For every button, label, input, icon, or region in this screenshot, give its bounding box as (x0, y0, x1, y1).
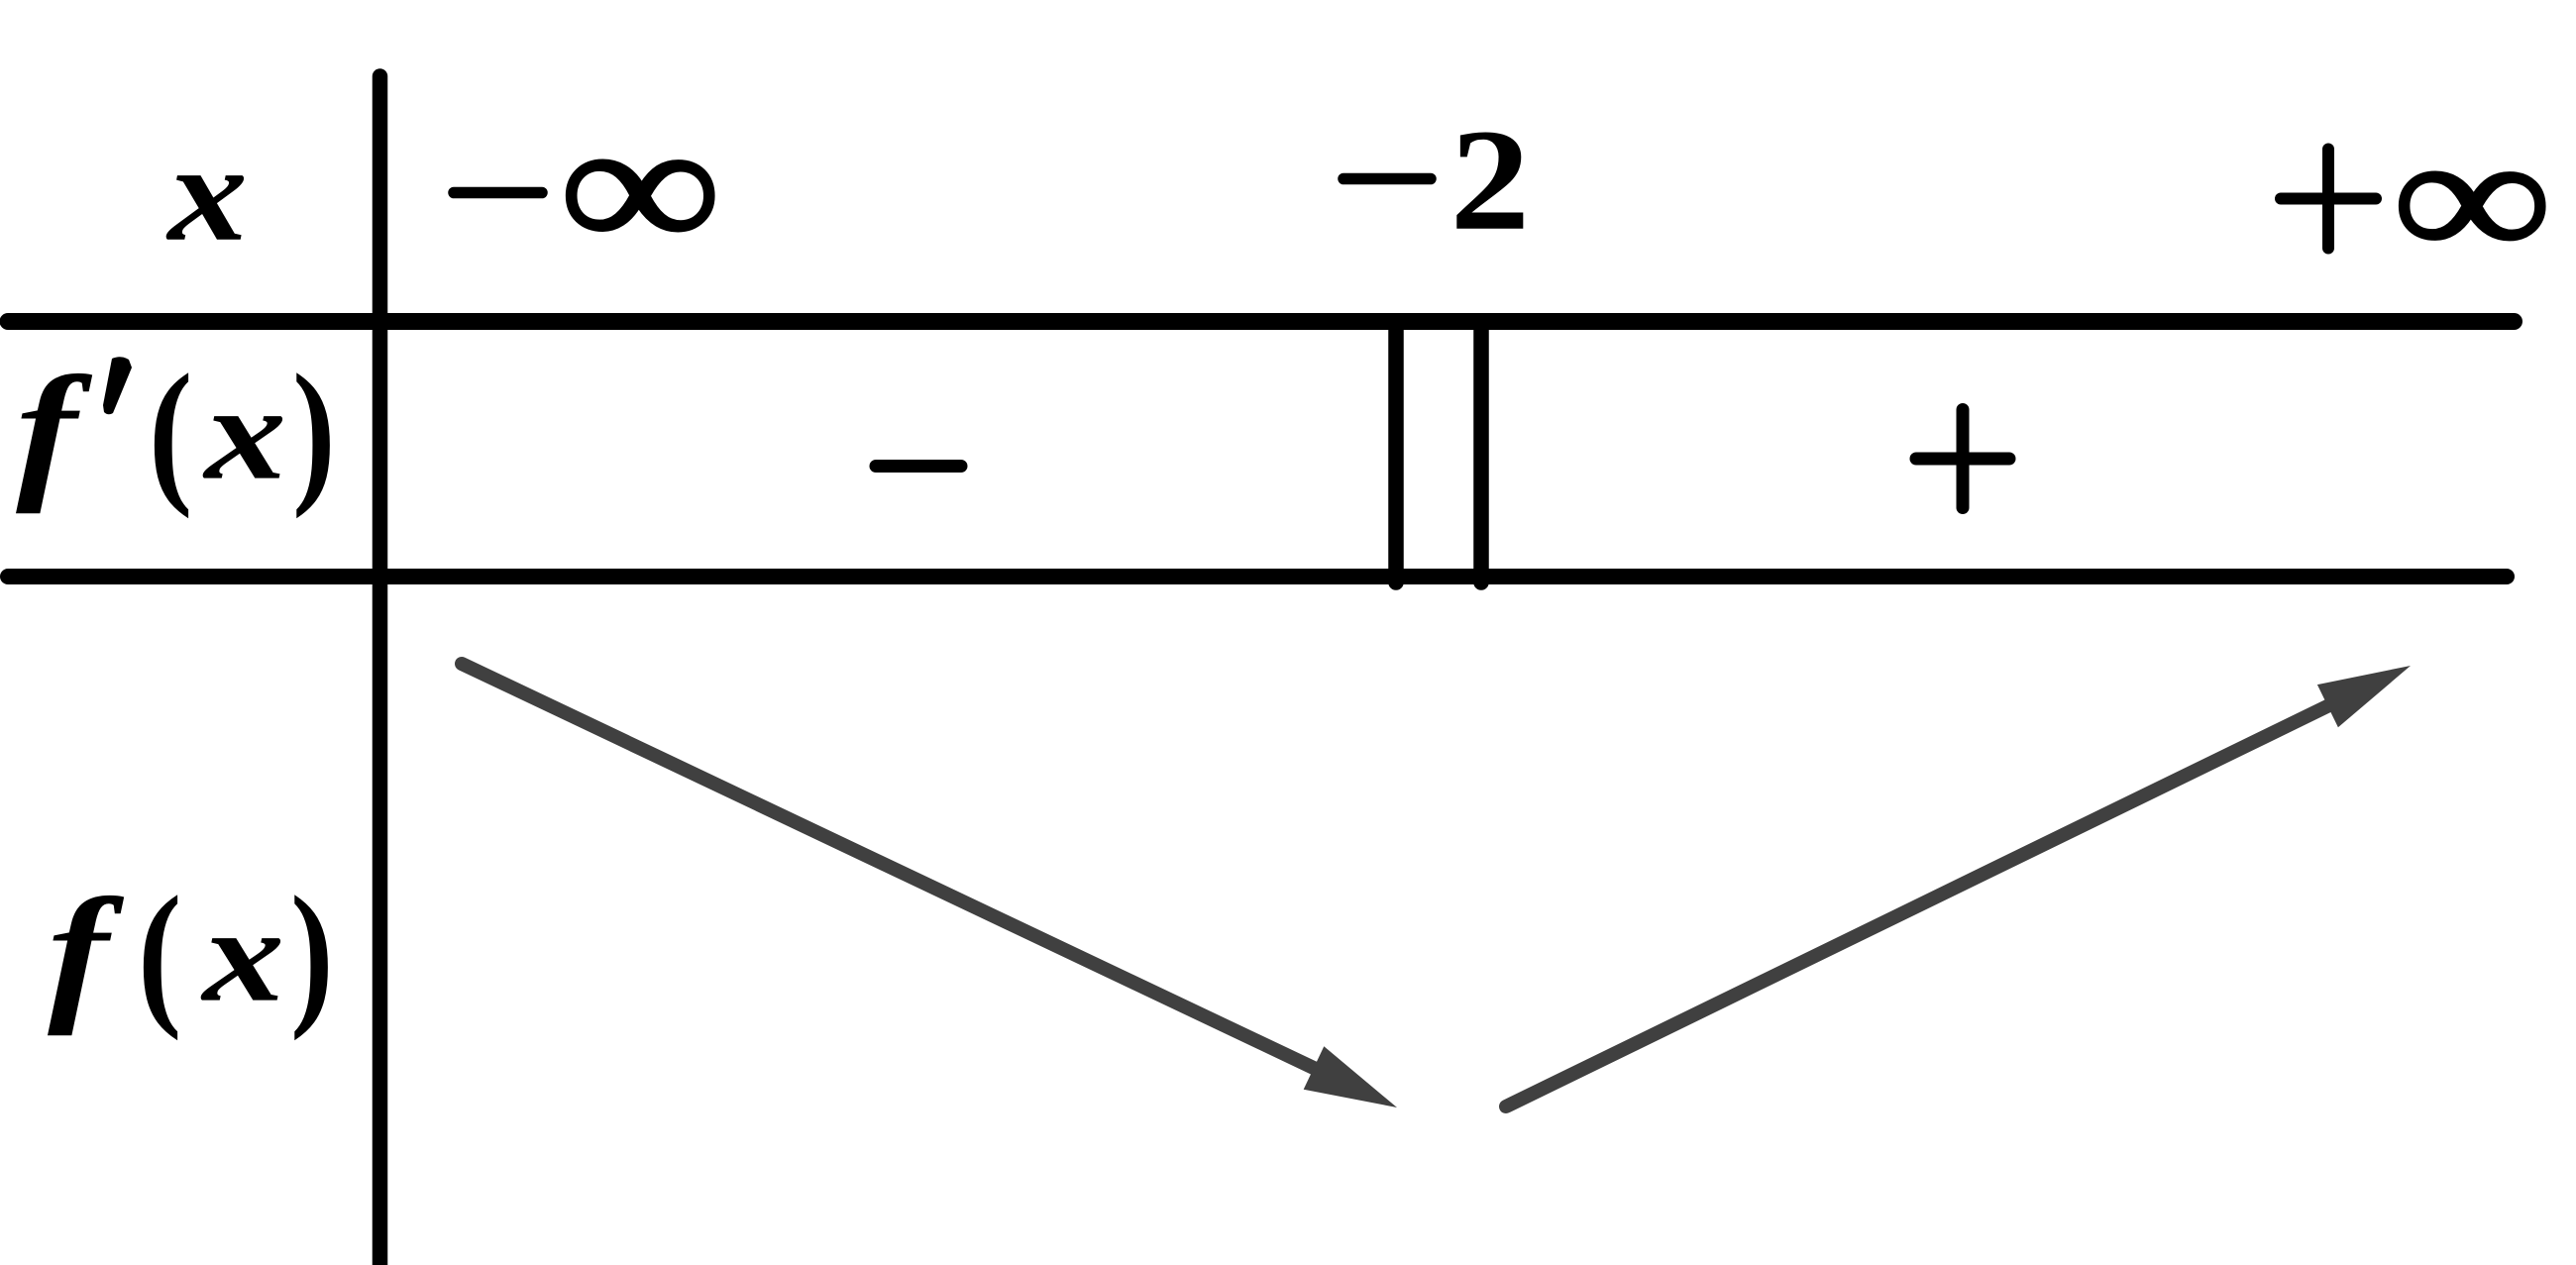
row label f'(x) : prime tick (103, 357, 132, 414)
svg-text:2: 2 (1450, 99, 1531, 261)
svg-text:∞: ∞ (561, 84, 719, 289)
minus of -2 (1343, 173, 1431, 185)
svg-text:(: ( (149, 343, 192, 520)
double bar right at x=-2 (1473, 327, 1489, 582)
table horizontal line 1 (below x row) (8, 313, 2515, 330)
svg-text:x: x (200, 880, 284, 1029)
svg-text:x: x (165, 115, 248, 269)
table vertical divider line (373, 76, 388, 1265)
table horizontal line 2 (below f'(x) row) (8, 569, 2507, 584)
plus sign in f'(x) row (1916, 410, 2009, 508)
double bar left at x=-2 (1388, 327, 1404, 582)
minus sign in f'(x) row (876, 460, 961, 473)
decreasing variation arrow head (1304, 1046, 1397, 1107)
svg-text:): ) (292, 342, 336, 519)
svg-text:): ) (290, 864, 334, 1041)
plus of +infinity (2281, 150, 2376, 249)
increasing variation arrow shaft (1506, 704, 2331, 1107)
increasing variation arrow head (2317, 666, 2411, 727)
minus of -infinity (454, 187, 542, 199)
decreasing variation arrow shaft (462, 664, 1318, 1070)
svg-text:∞: ∞ (2394, 100, 2550, 296)
svg-text:(: ( (138, 865, 181, 1042)
svg-text:x: x (202, 358, 286, 507)
